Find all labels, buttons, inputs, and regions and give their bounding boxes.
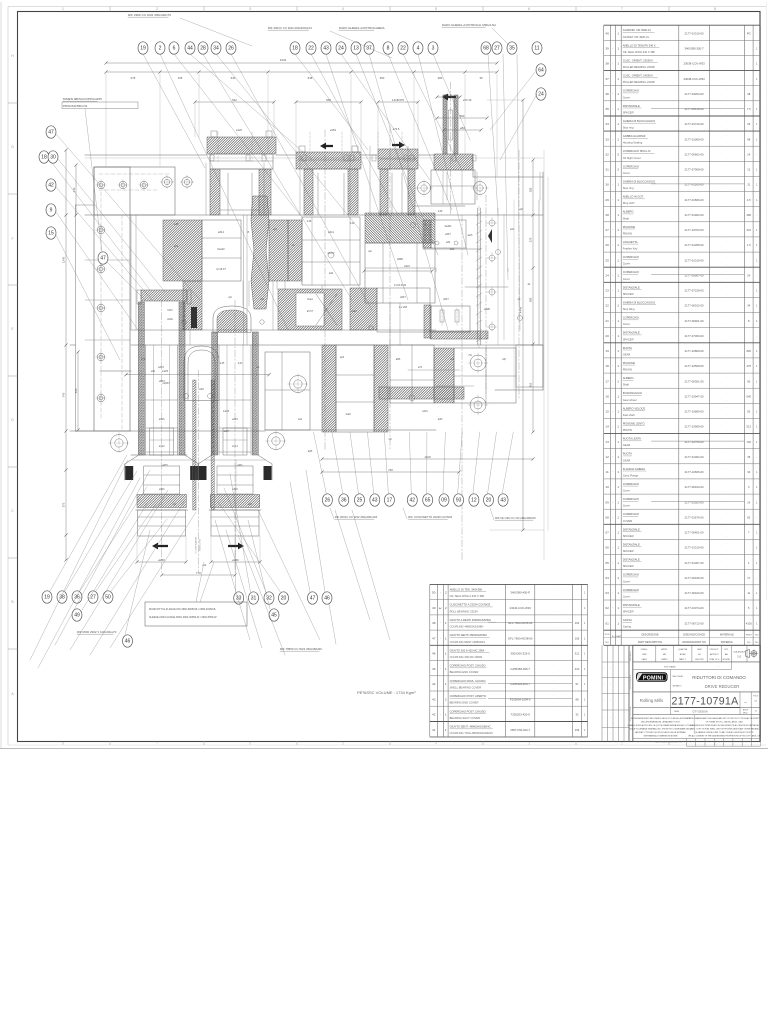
svg-text:·: ·	[553, 732, 554, 736]
title block rotated strip	[628, 645, 630, 741]
svg-text:2177-01310-00: 2177-01310-00	[685, 546, 704, 550]
bearing cap C1 rim	[210, 154, 273, 169]
svg-text:Ring GOT: Ring GOT	[623, 201, 635, 205]
right labels block	[431, 220, 466, 248]
svg-text:370: 370	[529, 237, 533, 242]
svg-text:43: 43	[372, 498, 378, 504]
svg-text:37: 37	[605, 77, 609, 81]
svg-text:9xø42: 9xø42	[217, 247, 225, 251]
svg-text:CAVG: CAVG	[641, 658, 647, 661]
svg-text:·: ·	[612, 455, 613, 459]
svg-text:SISTEMARE ALLE DIMENSIONI IN E: SISTEMARE ALLE DIMENSIONI IN ESSE	[644, 735, 679, 738]
centerline shaft V3	[324, 130, 326, 450]
bearing block row1 left wide	[163, 220, 202, 281]
svg-text:42: 42	[432, 713, 436, 717]
svg-text:Shaft: Shaft	[623, 216, 630, 220]
svg-text:ø|05: ø|05	[308, 451, 313, 453]
svg-text:P255804-2594-6: P255804-2594-6	[510, 697, 531, 701]
svg-text:·: ·	[553, 671, 554, 675]
svg-text:8: 8	[62, 742, 64, 746]
svg-text:·: ·	[726, 550, 727, 554]
svg-text:DISTANZIALE: DISTANZIALE	[623, 603, 640, 607]
svg-text:·: ·	[553, 716, 554, 720]
svg-text:512: 512	[747, 425, 752, 429]
svg-text:37: 37	[366, 46, 372, 52]
svg-text:FLANGIA GHIERA: FLANGIA GHIERA	[623, 467, 646, 471]
lower gear block right	[278, 289, 342, 330]
svg-text:7.5: 7.5	[747, 107, 751, 111]
svg-text:22: 22	[605, 304, 609, 308]
lower floor hatch	[379, 387, 464, 399]
svg-text:2177-00351-00: 2177-00351-00	[685, 379, 704, 383]
svg-text:øX3: øX3	[141, 359, 146, 361]
svg-text:2177-06416-00: 2177-06416-00	[685, 107, 704, 111]
svg-text:5: 5	[342, 742, 344, 746]
svg-text:675: 675	[131, 76, 136, 80]
svg-text:TRATT4 %: TRATT4 %	[709, 658, 719, 661]
svg-text:14: 14	[747, 500, 750, 504]
plate top bolts	[97, 181, 105, 189]
svg-text:·: ·	[726, 383, 727, 387]
svg-text:340X380-250-7: 340X380-250-7	[684, 47, 704, 51]
svg-text:DIMEN 98F5x/COPPIA4155: DIMEN 98F5x/COPPIA4155	[63, 97, 102, 101]
bottom shaft dims	[137, 561, 186, 563]
svg-text:MOD.: MOD.	[743, 713, 748, 715]
svg-text:COPERCHIO: COPERCHIO	[623, 573, 639, 577]
small circles scatter	[184, 394, 189, 399]
svg-text:26: 26	[747, 122, 750, 126]
svg-text:2177-01067-00: 2177-01067-00	[685, 561, 704, 565]
svg-text:1: 1	[445, 713, 447, 717]
svg-text:ø9K7: ø9K7	[400, 296, 406, 299]
svg-text:·: ·	[612, 334, 613, 338]
svg-text:3: 3	[432, 46, 435, 52]
svg-text:27: 27	[605, 228, 609, 232]
svg-text:11: 11	[605, 470, 608, 474]
input shaft flange	[434, 154, 473, 170]
svg-text:1: 1	[445, 682, 447, 686]
svg-text:øM7: øM7	[248, 504, 253, 506]
svg-text:480: 480	[747, 213, 752, 217]
svg-text:Stop ring: Stop ring	[623, 126, 634, 130]
svg-text:03: 03	[605, 591, 609, 595]
svg-text:RUOTA LENTA: RUOTA LENTA	[623, 437, 641, 441]
svg-text:·: ·	[726, 557, 727, 561]
svg-text:1: 1	[617, 31, 619, 35]
output shaft S2 bell flare	[198, 455, 212, 464]
file name row	[633, 669, 732, 671]
svg-text:49: 49	[432, 606, 436, 610]
svg-text:·: ·	[726, 35, 727, 39]
svg-text:·: ·	[553, 701, 554, 705]
svg-text:ø415: ø415	[159, 418, 165, 421]
svg-text:NO: NO	[755, 635, 759, 637]
svg-text:300X200-325-0: 300X200-325-0	[511, 652, 531, 656]
svg-text:Fast shaft: Fast shaft	[623, 413, 635, 417]
lower block hatched 322-390	[322, 345, 336, 432]
svg-text:RUOTA: RUOTA	[623, 346, 632, 350]
centerline shaft V6	[518, 150, 520, 400]
svg-text:159: 159	[575, 728, 580, 732]
svg-text:18: 18	[41, 155, 47, 161]
svg-text:2: 2	[617, 152, 619, 156]
balloon 46b bottom	[123, 635, 133, 647]
svg-text:·: ·	[612, 364, 613, 368]
svg-text:38: 38	[747, 92, 750, 96]
svg-text:·: ·	[726, 451, 727, 455]
svg-text:-: -	[756, 93, 757, 96]
svg-text:COPERCHIO: COPERCHIO	[623, 512, 639, 516]
svg-text:ø415: ø415	[158, 366, 164, 369]
svg-text:APPROV: APPROV	[710, 653, 719, 656]
svg-text:·: ·	[553, 586, 554, 590]
svg-text:1: 1	[617, 485, 619, 489]
svg-text:ø12 AL: ø12 AL	[444, 93, 454, 97]
left shaft bearing cap slab	[141, 290, 187, 301]
svg-text:LAVORAZ. OTTICHE E QUOTE DI LA: LAVORAZ. OTTICHE E QUOTE DI LAVOR. NELLE…	[635, 731, 687, 734]
BOM table right	[603, 25, 605, 645]
svg-text:G255368-456-7: G255368-456-7	[510, 667, 530, 671]
svg-text:19: 19	[44, 595, 50, 601]
svg-text:SPACER: SPACER	[623, 292, 634, 296]
svg-text:32: 32	[576, 713, 579, 717]
svg-text:-: -	[756, 577, 757, 580]
svg-text:1: 1	[617, 319, 619, 323]
svg-text:44: 44	[187, 46, 193, 52]
right hatch wedge	[423, 220, 431, 248]
svg-text:GASKET OR 4900-21: GASKET OR 4900-21	[623, 35, 650, 39]
folio cell	[750, 692, 752, 742]
svg-text:1: 1	[617, 621, 619, 625]
mid block B3 bore	[365, 243, 435, 303]
svg-text:RUOTA: RUOTA	[623, 452, 632, 456]
svg-text:=ø|5K7: =ø|5K7	[162, 383, 170, 385]
centerline input shaft	[450, 82, 452, 215]
svg-text:165: 165	[178, 76, 183, 80]
svg-text:ø42: ø42	[329, 272, 334, 275]
title block left columns	[601, 645, 603, 741]
svg-text:·: ·	[440, 621, 441, 625]
svg-text:SPACER: SPACER	[623, 549, 634, 553]
svg-text:33: 33	[605, 137, 609, 141]
housing right wall	[542, 172, 544, 390]
balloon 11 top right	[532, 42, 542, 54]
svg-text:·: ·	[440, 713, 441, 717]
top dimension chain overall	[106, 62, 497, 64]
svg-text:ø21E: ø21E	[167, 319, 173, 321]
svg-text:DISTANZIALE: DISTANZIALE	[623, 543, 640, 547]
top right small dims	[437, 117, 487, 119]
svg-text:CITY DESIGN: CITY DESIGN	[692, 710, 708, 713]
drawing number row	[633, 707, 761, 709]
svg-text:88: 88	[576, 697, 579, 701]
svg-text:09: 09	[441, 498, 447, 504]
left plate top extension	[94, 167, 175, 215]
svg-text:Cover: Cover	[623, 489, 630, 493]
svg-text:1: 1	[617, 243, 619, 247]
svg-text:GHIERA DI BLOCCAGGIO: GHIERA DI BLOCCAGGIO	[623, 179, 655, 183]
svg-text:ø260: ø260	[158, 558, 165, 562]
svg-text:RIF 79550 CC W22 330x460x90: RIF 79550 CC W22 330x460x90	[280, 647, 322, 651]
svg-text:COPERCHIO POST. CHIUSO: COPERCHIO POST. CHIUSO	[450, 664, 486, 668]
zone ticks left	[8, 102, 18, 104]
projection symbol	[746, 650, 750, 658]
balloon row top group 4	[481, 42, 491, 54]
housing top edge	[85, 154, 207, 156]
right horizontals	[413, 205, 465, 207]
svg-text:350: 350	[380, 76, 385, 80]
svg-text:1: 1	[445, 621, 447, 625]
arrow bottom left	[152, 543, 168, 550]
svg-text:MACCHINA: MACCHINA	[673, 675, 684, 678]
svg-text:·: ·	[726, 118, 727, 122]
lower right white cells	[454, 348, 516, 403]
svg-text:2177-10869-00: 2177-10869-00	[685, 349, 704, 353]
svg-text:·: ·	[726, 224, 727, 228]
svg-text:19: 19	[605, 349, 609, 353]
balloon row top group 3	[383, 42, 393, 54]
svg-text:=ø8K7: =ø8K7	[223, 431, 231, 433]
right wall inner line	[538, 200, 540, 345]
svg-text:1: 1	[617, 470, 619, 474]
svg-text:ø153: ø153	[330, 128, 336, 132]
svg-text:1: 1	[445, 667, 447, 671]
svg-text:·: ·	[726, 375, 727, 379]
svg-text:35: 35	[479, 76, 483, 80]
svg-text:·: ·	[726, 73, 727, 77]
balloon 47 46 bottom right	[308, 592, 318, 604]
svg-text:·: ·	[726, 602, 727, 606]
svg-text:·: ·	[612, 379, 613, 383]
svg-text:1: 1	[617, 425, 619, 429]
svg-text:50: 50	[432, 591, 436, 595]
svg-text:39: 39	[605, 47, 609, 51]
svg-text:·: ·	[726, 171, 727, 175]
svg-text:GEAR: GEAR	[623, 352, 631, 356]
svg-text:·: ·	[612, 289, 613, 293]
svg-text:·: ·	[726, 496, 727, 500]
svg-text:8xø4: 8xø4	[351, 311, 357, 313]
svg-text:ø567: ø567	[159, 380, 165, 383]
svg-text:NO: NO	[755, 642, 759, 644]
svg-text:1: 1	[617, 47, 619, 51]
svg-text:7: 7	[156, 742, 158, 746]
svg-text:DRAWING/PART NO: DRAWING/PART NO	[682, 641, 706, 644]
balloon 64 right	[536, 64, 546, 76]
svg-text:RIF. CUSCINETTO 22230 CC/W33: RIF. CUSCINETTO 22230 CC/W33	[408, 515, 452, 519]
lower dome cap	[184, 346, 219, 400]
svg-text:COUPLING 300 MC 29609: COUPLING 300 MC 29609	[450, 655, 483, 659]
svg-text:01: 01	[605, 621, 609, 625]
svg-text:DADO GHIERA+CONTROGH. M90x2-6H: DADO GHIERA+CONTROGH. M90x2-6H	[442, 23, 496, 27]
balloon 47 left	[98, 252, 108, 264]
svg-text:25: 25	[357, 498, 363, 504]
svg-text:·: ·	[726, 148, 727, 152]
svg-text:·: ·	[726, 405, 727, 409]
svg-text:GHIERA DI BLOCCAGGIO: GHIERA DI BLOCCAGGIO	[623, 300, 655, 304]
svg-text:POMINI: POMINI	[643, 676, 664, 682]
svg-text:2177-01023-00: 2177-01023-00	[685, 500, 704, 504]
bearing cap C2 flange	[296, 152, 361, 169]
svg-text:11: 11	[747, 591, 750, 595]
svg-text:·: ·	[612, 410, 613, 414]
svg-text:1345: 1345	[62, 256, 66, 263]
svg-text:1: 1	[617, 92, 619, 96]
svg-text:m=18 K7: m=18 K7	[216, 268, 227, 271]
svg-text:øø/5: øø/5	[468, 235, 473, 237]
svg-text:13: 13	[605, 440, 609, 444]
svg-text:OIL SEAL RING 340 X 380: OIL SEAL RING 340 X 380	[623, 50, 656, 54]
svg-text:·: ·	[726, 58, 727, 62]
svg-text:ø340: ø340	[232, 488, 238, 491]
svg-text:42: 42	[48, 183, 54, 189]
svg-text:68: 68	[483, 46, 489, 52]
svg-text:2177-10703-00: 2177-10703-00	[685, 228, 704, 232]
svg-text:·: ·	[726, 178, 727, 182]
svg-text:·: ·	[726, 625, 727, 629]
svg-text:210: 210	[575, 667, 580, 671]
svg-text:24: 24	[747, 273, 750, 277]
svg-text:·: ·	[726, 315, 727, 319]
zone ticks bottom	[109, 741, 111, 745]
svg-text:213: 213	[72, 187, 76, 192]
dashed bolt lines caps	[217, 132, 219, 162]
svg-text:ø712: ø712	[159, 445, 165, 448]
svg-text:2177-01368-00: 2177-01368-00	[685, 243, 704, 247]
svg-text:·: ·	[726, 542, 727, 546]
svg-text:2-05: 2-05	[220, 363, 225, 365]
svg-text:møX5: møX5	[162, 371, 169, 373]
svg-text:·: ·	[726, 526, 727, 530]
svg-text:·: ·	[612, 228, 613, 232]
svg-text:PART DESCRIPTION: PART DESCRIPTION	[638, 641, 662, 644]
svg-text:12: 12	[605, 455, 609, 459]
svg-text:·: ·	[726, 133, 727, 137]
centerline far right axis	[461, 215, 463, 560]
output shaft S1 sleeve	[144, 466, 180, 494]
svg-text:26: 26	[605, 243, 609, 247]
svg-text:3: 3	[249, 7, 251, 11]
output shaft S2 sleeve hatched	[210, 495, 259, 508]
svg-text:NMRD: NMRD	[661, 659, 668, 661]
stud bolts row	[210, 155, 214, 161]
svg-text:1: 1	[617, 107, 619, 111]
top dimension chain segments	[106, 71, 497, 73]
svg-text:·: ·	[553, 610, 554, 614]
mid block B3 bottom hatch	[350, 288, 377, 330]
svg-text:COUPLING DENTI 4M600AS: COUPLING DENTI 4M600AS	[450, 640, 486, 644]
svg-text:·: ·	[612, 606, 613, 610]
extra fan lines right	[335, 510, 370, 620]
flange circle b	[290, 376, 307, 393]
svg-text:2177-01806-00: 2177-01806-00	[685, 198, 704, 202]
svg-text:1100: 1100	[424, 455, 431, 459]
svg-text:2177-01002-00: 2177-01002-00	[685, 455, 704, 459]
svg-text:·: ·	[726, 398, 727, 402]
svg-text:Gear wheel: Gear wheel	[623, 398, 637, 402]
svg-text:1: 1	[617, 606, 619, 610]
svg-text:7: 7	[621, 7, 623, 11]
svg-text:34: 34	[747, 304, 750, 308]
left small dims	[77, 352, 79, 430]
svg-text:1: 1	[617, 77, 619, 81]
svg-text:1: 1	[617, 515, 619, 519]
svg-text:·: ·	[440, 667, 441, 671]
row1 bore white	[202, 220, 241, 281]
svg-text:33: 33	[236, 596, 242, 602]
svg-text:COVER: COVER	[623, 519, 633, 523]
svg-text:30: 30	[50, 155, 56, 161]
svg-text:JMN: JMN	[642, 654, 647, 656]
svg-text:·: ·	[612, 107, 613, 111]
svg-text:GIUNTO A DENTI 4M600AS/D/BH: GIUNTO A DENTI 4M600AS/D/BH	[450, 618, 491, 622]
svg-text:82: 82	[747, 515, 750, 519]
svg-text:31: 31	[251, 596, 257, 602]
svg-text:øK: øK	[257, 367, 260, 369]
svg-text:34: 34	[213, 46, 219, 52]
svg-text:35: 35	[605, 107, 609, 111]
svg-text:·: ·	[726, 511, 727, 515]
svg-text:COPERCHIO: COPERCHIO	[623, 316, 639, 320]
right dim chain 2	[532, 160, 534, 432]
svg-text:·: ·	[726, 610, 727, 614]
svg-text:RIF NH 230 CC CD 260x400x60: RIF NH 230 CC CD 260x400x60	[495, 516, 536, 520]
svg-text:2-08: 2-08	[438, 211, 443, 213]
svg-text:AC: AC	[439, 607, 442, 610]
svg-text:PIGNONE: PIGNONE	[623, 361, 636, 365]
output shaft S2 body	[218, 345, 220, 455]
svg-text:QUALITA: QUALITA	[678, 648, 687, 651]
bearing cap C2 neck walls	[304, 169, 313, 215]
svg-text:40: 40	[605, 31, 609, 35]
svg-text:·: ·	[612, 47, 613, 51]
svg-text:46: 46	[125, 639, 131, 645]
housing shoulder bolt circles	[162, 177, 172, 187]
svg-text:50: 50	[105, 595, 111, 601]
svg-text:2177-01310-00: 2177-01310-00	[685, 258, 704, 262]
svg-text:1: 1	[617, 500, 619, 504]
svg-text:97: 97	[576, 682, 579, 686]
right step white	[516, 345, 543, 387]
svg-text:BEARING SHUT COVER: BEARING SHUT COVER	[450, 716, 480, 720]
svg-text:-: -	[756, 335, 757, 338]
svg-text:·: ·	[726, 489, 727, 493]
svg-text:m=18 Z=62: m=18 Z=62	[394, 284, 407, 287]
svg-text:2177-00401-00: 2177-00401-00	[685, 531, 704, 535]
svg-text:·: ·	[612, 319, 613, 323]
svg-text:2177-10508-00: 2177-10508-00	[685, 364, 704, 368]
svg-text:REV/MOD: REV/MOD	[630, 651, 632, 661]
svg-text:31: 31	[747, 183, 750, 187]
svg-text:MATERIALE: MATERIALE	[720, 634, 734, 637]
right extension line	[543, 150, 545, 560]
svg-text:COUPLING 4M600AS/D/BH: COUPLING 4M600AS/D/BH	[450, 625, 484, 629]
svg-text:16: 16	[605, 394, 609, 398]
svg-text:2177-00435-00: 2177-00435-00	[685, 576, 704, 580]
svg-text:49: 49	[74, 613, 80, 619]
bearing cap C1 flange	[207, 137, 276, 154]
bearing narrow left	[183, 281, 202, 330]
svg-text:1: 1	[617, 561, 619, 565]
svg-text:COPERCHIO: COPERCHIO	[623, 497, 639, 501]
svg-text:20: 20	[605, 334, 609, 338]
svg-text:·: ·	[726, 368, 727, 372]
shaft continuation lines mid	[243, 215, 245, 345]
svg-text:·: ·	[726, 209, 727, 213]
svg-text:GIUNTO DENT. 4M600AS/GB24C: GIUNTO DENT. 4M600AS/GB24C	[450, 725, 491, 729]
svg-text:47: 47	[48, 130, 54, 136]
svg-text:OIL SEAL RING A 340 X 380: OIL SEAL RING A 340 X 380	[450, 594, 485, 598]
